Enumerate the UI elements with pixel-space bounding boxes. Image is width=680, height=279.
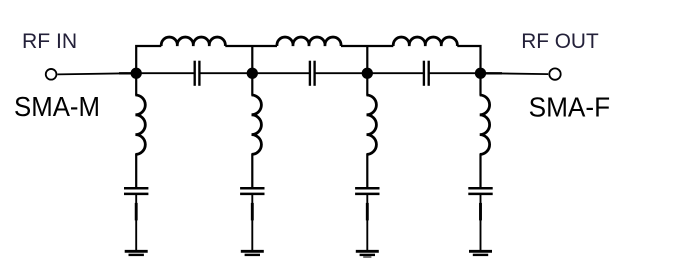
inductor L1 top bbox=[161, 37, 225, 46]
ground 4 bbox=[469, 250, 492, 253]
wire P1 to node A bbox=[57, 73, 136, 74]
capacitor C2 series bbox=[310, 61, 315, 86]
wire C3 to node D bbox=[429, 72, 481, 74]
wire node A to C1 bbox=[136, 72, 195, 74]
capacitor C7 shunt bbox=[468, 188, 492, 194]
inductor L6 shunt bbox=[367, 95, 377, 154]
wire stub thick below C5 bbox=[251, 203, 254, 221]
ground 2 bbox=[241, 250, 264, 253]
wire node D down bbox=[479, 73, 481, 95]
inductor L3 top bbox=[393, 37, 457, 46]
inductor L5 shunt bbox=[252, 95, 262, 154]
ground 3 bbox=[356, 250, 379, 253]
wire top rail riser node A bbox=[136, 46, 161, 73]
wire L7 to C7 bbox=[479, 154, 481, 188]
shunt branch 4 bbox=[468, 73, 492, 255]
wire stub at node A left bbox=[119, 72, 136, 74]
node D junction dot bbox=[475, 68, 486, 79]
shunt branch 1 bbox=[124, 73, 148, 255]
capacitor C4 shunt bbox=[124, 188, 148, 194]
svg-text:RF OUT: RF OUT bbox=[521, 28, 599, 53]
wire C6 to ground bbox=[366, 194, 368, 250]
svg-text:SMA-M: SMA-M bbox=[14, 91, 100, 122]
wire node A down bbox=[135, 73, 137, 95]
inductor L4 shunt bbox=[135, 95, 145, 154]
svg-text:SMA-F: SMA-F bbox=[529, 92, 611, 123]
wire stub thick below C4 bbox=[135, 203, 138, 221]
svg-text:RF IN: RF IN bbox=[22, 28, 77, 53]
wire top rail riser node D bbox=[457, 46, 480, 73]
wire top rail L1 to L2 with riser node B bbox=[225, 46, 277, 73]
wire C1 to node B bbox=[199, 72, 252, 74]
wire node D to port P2 bbox=[481, 72, 549, 75]
wire stub thick below C7 bbox=[479, 203, 482, 221]
wire node B down bbox=[251, 73, 253, 95]
wire node B to C2 bbox=[252, 72, 310, 74]
port P1 RF IN terminal bbox=[46, 69, 57, 80]
capacitor C1 series bbox=[195, 61, 200, 86]
wire L5 to C5 bbox=[251, 154, 253, 188]
wire C7 to ground bbox=[480, 194, 482, 250]
wire L4 to C4 bbox=[135, 154, 137, 188]
port P2 RF OUT terminal bbox=[549, 68, 560, 79]
wire C2 to node C bbox=[315, 72, 368, 74]
capacitor C5 shunt bbox=[240, 188, 264, 194]
shunt branch 3 bbox=[355, 73, 379, 257]
shunt branch 2 bbox=[240, 73, 264, 255]
ground 1 bbox=[125, 250, 148, 253]
wire node C to C3 bbox=[367, 72, 424, 74]
wire C5 to ground bbox=[251, 194, 253, 250]
wire node C down bbox=[366, 73, 368, 95]
node B junction dot bbox=[247, 68, 258, 79]
inductor L7 shunt bbox=[480, 95, 490, 154]
wire C4 to ground bbox=[135, 194, 137, 250]
capacitor C6 shunt bbox=[355, 188, 379, 194]
inductor L2 top bbox=[277, 37, 341, 46]
node C junction dot bbox=[362, 68, 373, 79]
capacitor C3 series bbox=[424, 61, 429, 86]
wire stub at node D right bbox=[481, 72, 503, 74]
wire top rail L2 to L3 with riser node C bbox=[341, 46, 393, 73]
wire L6 to C6 bbox=[366, 154, 368, 188]
wire stub thick below C6 bbox=[366, 203, 369, 221]
node A junction dot bbox=[131, 68, 142, 79]
